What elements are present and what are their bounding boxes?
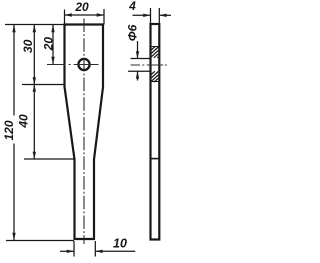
side view hole centerline	[131, 64, 167, 66]
centerline horizontal through hole	[47, 64, 99, 66]
dimension 40 line	[33, 85, 35, 160]
part outline front view	[65, 25, 104, 240]
svg-text:120: 120	[2, 120, 16, 140]
Φ6 dimension line segments	[137, 41, 139, 59]
arrowheads	[12, 13, 166, 253]
extension line bottom y=240.5	[6, 240, 74, 242]
top width 20: extension lines	[64, 10, 66, 25]
top 20 arrows	[64, 13, 72, 16]
120 arrows	[12, 25, 15, 33]
bottom width 10: extension lines	[73, 241, 75, 257]
dimension 30 line	[33, 25, 35, 85]
side view: thin boundary lines of hatched zone	[151, 46, 159, 48]
svg-text:40: 40	[17, 114, 31, 129]
bottom 10 arrows (outside, pointing inward)	[67, 250, 75, 253]
side view hatching upper band	[151, 47, 158, 58]
bottom width 10: dimension line segments	[60, 250, 74, 252]
thickness 4 arrows	[143, 14, 151, 17]
side view: projected taper-end edge line	[151, 158, 158, 160]
30 arrows	[33, 25, 36, 33]
svg-text:10: 10	[113, 237, 127, 251]
20 left arrows	[51, 25, 54, 33]
top width 20: dimension line	[65, 14, 105, 16]
svg-text:20: 20	[74, 0, 89, 14]
thickness 4 dimension line segments	[133, 14, 151, 16]
Φ6: extension lines (hole top/bottom in side view)	[131, 58, 151, 60]
svg-text:4: 4	[128, 0, 136, 13]
extension line at taper start y=84.5	[22, 84, 66, 86]
svg-text:30: 30	[21, 39, 35, 53]
extension line top (left of part, y=24.5)	[5, 24, 64, 26]
side view hatching lower band	[151, 71, 158, 82]
centerline vertical (front view)	[83, 19, 85, 245]
side view rectangle	[151, 24, 160, 240]
Φ6 arrows	[136, 51, 139, 59]
hole Φ6 (front view circle)	[78, 59, 89, 70]
40 arrows	[33, 84, 36, 92]
dimension 20 (to hole center) line	[52, 25, 54, 64]
extension line at taper end y=159	[24, 158, 76, 160]
dimension 120 line	[13, 25, 15, 240]
svg-text:Φ6: Φ6	[126, 24, 140, 41]
thickness 4: extension lines above side view	[150, 8, 152, 23]
svg-text:20: 20	[41, 37, 55, 52]
